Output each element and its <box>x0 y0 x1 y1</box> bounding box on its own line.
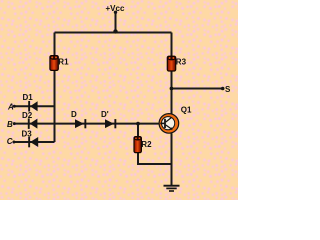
svg-text:D2: D2 <box>22 111 33 120</box>
svg-text:D1: D1 <box>23 93 34 102</box>
svg-text:Q1: Q1 <box>181 105 192 114</box>
svg-text:R3: R3 <box>176 57 187 66</box>
svg-text:D: D <box>71 110 77 119</box>
svg-text:S: S <box>225 85 231 94</box>
svg-text:R2: R2 <box>141 140 152 149</box>
svg-text:+Vcc: +Vcc <box>106 4 125 13</box>
svg-text:D3: D3 <box>22 130 33 139</box>
svg-text:C: C <box>7 137 13 146</box>
svg-text:B: B <box>7 120 13 129</box>
svg-text:R1: R1 <box>58 58 69 67</box>
svg-text:A: A <box>7 102 14 111</box>
svg-text:D': D' <box>101 110 109 119</box>
